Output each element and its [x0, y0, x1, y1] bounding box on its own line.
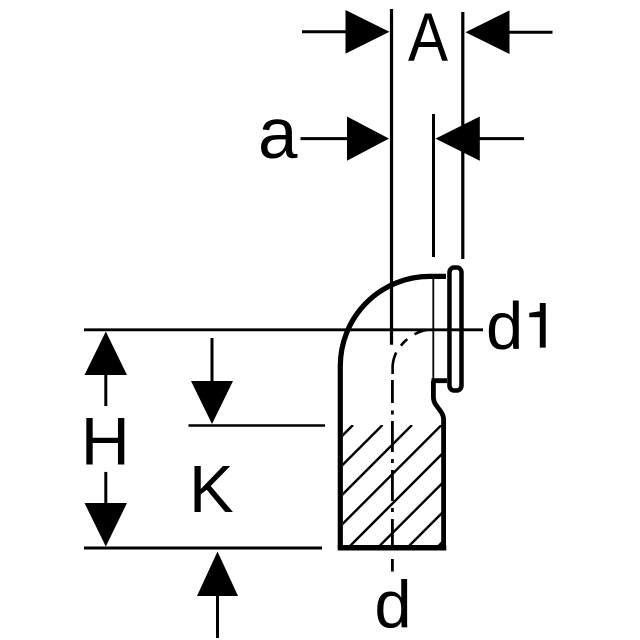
dimension A leader line left: [302, 30, 348, 33]
axis dash-dot: arc dash A: [415, 330, 428, 335]
dimension a arrowhead left: [347, 117, 389, 161]
flange (outlet rim), rounded rect: [449, 268, 461, 391]
bottom up arrowhead: [197, 552, 238, 597]
axis dash-dot: arc dash B: [401, 339, 407, 346]
svg-text:a: a: [258, 95, 298, 174]
horizontal centerline d1 / H top line: [84, 328, 483, 331]
H dimension up arrow stem: [104, 373, 107, 406]
elbow fitting outline: left wall + outer bend arc + top edge: [340, 276, 446, 548]
extension line a-right (x=433.5): [432, 114, 435, 257]
sleeve line behind flange: [432, 279, 434, 379]
svg-text:d: d: [374, 568, 411, 640]
hatching (section): [232, 425, 560, 546]
svg-text:H: H: [81, 403, 130, 479]
dimension A leader line right: [509, 31, 553, 34]
pipe bottom edge: [338, 545, 447, 551]
dimension a leader line left: [301, 137, 349, 140]
svg-text:d: d: [486, 289, 523, 364]
dimension A arrowhead right: [466, 10, 510, 54]
right wall with shoulder step: [432, 381, 448, 548]
svg-text:A: A: [408, 0, 448, 76]
centerline dash-dot vertical segments: [391, 380, 394, 572]
d1 digit 1 (custom glyph, no foot serif): [529, 303, 545, 348]
H dimension down arrow stem: [104, 472, 107, 505]
axis dash-dot: arc dash C + tangent: [393, 353, 397, 375]
K dimension down arrow stem: [211, 338, 214, 383]
H dimension up arrowhead: [85, 332, 128, 376]
bottom up arrow stem: [216, 594, 219, 638]
extension line left (pipe centerline upper, x=391.5): [390, 9, 393, 345]
H dimension down arrowhead: [85, 503, 128, 547]
K dimension down arrowhead: [191, 381, 233, 424]
svg-text:K: K: [189, 452, 234, 527]
dimension a leader line right: [479, 137, 524, 140]
bottom dimension line (H/K bottom): [84, 547, 322, 550]
extension line A-right (x=462.8): [461, 12, 464, 259]
dimension a arrowhead right: [436, 117, 480, 161]
dimension A arrowhead left: [346, 10, 390, 54]
K dimension line: [189, 424, 326, 427]
